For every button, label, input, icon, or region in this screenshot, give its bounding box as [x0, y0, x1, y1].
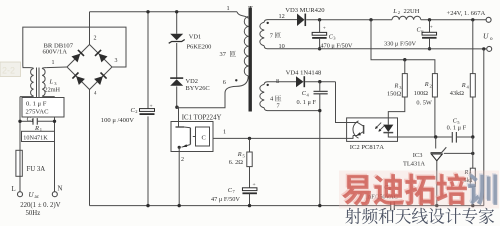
svg-text:150Ω: 150Ω — [387, 91, 401, 98]
svg-text:VD4 1N4148: VD4 1N4148 — [286, 69, 322, 76]
terminal 0V output — [487, 46, 492, 51]
terminal +24V output — [447, 10, 492, 22]
terminal L — [12, 186, 23, 197]
diode VD1 P6KE200 (TVS) — [169, 10, 212, 51]
diode VD2 BYV26C — [170, 43, 209, 107]
svg-text:22mH: 22mH — [45, 87, 61, 94]
svg-text:VD1: VD1 — [189, 33, 201, 40]
varistor R1 10N471K — [22, 125, 55, 142]
resistor R5 6.2ohm — [229, 138, 252, 166]
capacitor C7 47uF/50V — [211, 167, 257, 208]
svg-text:0. 5W: 0. 5W — [416, 100, 431, 107]
svg-text:+24V, 1. 667A: +24V, 1. 667A — [447, 10, 486, 17]
optocoupler IC2 PC817A — [347, 118, 398, 151]
svg-text:R: R — [394, 83, 399, 90]
svg-text:600V/1A: 600V/1A — [43, 49, 68, 56]
svg-text:0. 1 μ F: 0. 1 μ F — [297, 99, 317, 106]
svg-text:C: C — [202, 135, 206, 142]
capacitor C1 label box 0.1uF/275VAC — [22, 98, 64, 118]
wire L-line top loop (pin3 of bridge to choke) — [23, 27, 126, 68]
svg-text:50Hz: 50Hz — [26, 210, 41, 217]
svg-text:o: o — [490, 36, 493, 42]
label 220V 50Hz — [20, 202, 60, 217]
wire pin7 to ground lead — [268, 109, 322, 112]
svg-text:7: 7 — [277, 103, 280, 110]
svg-text:N: N — [58, 186, 63, 193]
watermark yiditui logo — [339, 171, 499, 209]
wire choke right to bridge pin1 — [46, 66, 67, 69]
transformer T primary winding 37 turns — [220, 5, 249, 86]
svg-text:1: 1 — [223, 129, 226, 136]
svg-text:330 μ F/50V: 330 μ F/50V — [384, 41, 417, 48]
svg-text:12: 12 — [279, 13, 285, 20]
wire bridge pin2 to DC+ rail — [89, 12, 91, 45]
capacitor C5 0.1uF — [447, 118, 467, 143]
svg-text:L: L — [392, 8, 397, 15]
svg-text:10N471K: 10N471K — [23, 134, 48, 141]
svg-text:+: + — [430, 25, 433, 31]
svg-text:R: R — [424, 81, 429, 88]
svg-text:37: 37 — [220, 51, 227, 58]
svg-text:IC2 PC817A: IC2 PC817A — [350, 144, 384, 151]
wire node-A branch down — [371, 20, 435, 74]
capacitor C8 1nF/250VAC (Y-cap in bottom rail) — [365, 184, 398, 210]
svg-text:22UH: 22UH — [404, 8, 420, 15]
label Uac — [29, 191, 40, 200]
svg-text:U: U — [483, 32, 489, 41]
wire bridge pin4 to primary ground — [89, 90, 91, 206]
svg-text:FU 3A: FU 3A — [27, 166, 46, 173]
resistor R6 5k1 — [464, 137, 476, 207]
svg-text:P6KE200: P6KE200 — [187, 44, 212, 51]
svg-text:2-2: 2-2 — [2, 66, 15, 76]
diode VD3 MUR420 — [285, 7, 325, 26]
wire L2 to +24V terminal — [421, 18, 486, 21]
inductor L2 22uH — [392, 8, 421, 20]
fuse FU 3A — [16, 150, 45, 176]
resistor R4 43kohm — [450, 20, 476, 137]
wire VD3 to L2 — [306, 18, 392, 21]
svg-text:5: 5 — [243, 153, 246, 158]
svg-text:4: 4 — [270, 96, 274, 103]
wire pin12 to VD3 — [268, 19, 298, 21]
shunt regulator IC3 TL431A — [403, 137, 474, 207]
figure tag 2-2 — [0, 62, 21, 77]
svg-text:100Ω: 100Ω — [414, 90, 428, 97]
svg-text:0. 1 μ F: 0. 1 μ F — [447, 125, 467, 132]
IC1 TOP224Y switching regulator — [171, 115, 226, 208]
svg-text:2: 2 — [430, 83, 432, 88]
svg-text:1: 1 — [31, 118, 33, 123]
wire pin8 to VD4 — [268, 81, 297, 83]
svg-text:+: + — [150, 103, 153, 109]
capacitor C2 100uF/400V — [101, 10, 155, 207]
svg-text:4: 4 — [467, 84, 470, 89]
terminal N — [52, 186, 62, 197]
wire primary/secondary bottom rail — [90, 205, 484, 207]
capacitor C1 — [18, 116, 56, 125]
resistor R3 150ohm — [387, 60, 407, 118]
svg-text:1: 1 — [52, 60, 55, 66]
svg-text:VD3 MUR420: VD3 MUR420 — [285, 7, 325, 14]
svg-text:IC3: IC3 — [413, 152, 423, 159]
svg-text:+: + — [323, 26, 326, 32]
diode VD4 1N4148 — [286, 69, 322, 87]
svg-text:BYV26C: BYV26C — [186, 85, 210, 92]
svg-text:VD2: VD2 — [186, 78, 198, 85]
capacitor C6 330uF/50V — [384, 20, 437, 51]
wire DC+ top rail — [90, 11, 238, 13]
svg-text:L: L — [49, 79, 54, 86]
wire N rail — [54, 97, 56, 192]
svg-text:4: 4 — [94, 92, 97, 97]
transformer bias winding 4 turns (pins 8-7) — [260, 78, 281, 111]
svg-text:2: 2 — [94, 36, 97, 42]
wire VD4 to opto collector — [305, 80, 347, 123]
wire return down to secondary ground — [483, 49, 485, 206]
svg-text:+: + — [253, 182, 256, 188]
svg-text:R: R — [461, 82, 466, 89]
resistor R2 100ohm 0.5W — [414, 74, 438, 137]
svg-text:IC1 TOP224Y: IC1 TOP224Y — [182, 115, 222, 122]
svg-text:R: R — [237, 151, 242, 158]
svg-text:43kΩ: 43kΩ — [450, 90, 464, 97]
svg-text:6. 2Ω: 6. 2Ω — [229, 159, 243, 166]
svg-text:1: 1 — [227, 5, 230, 12]
svg-text:47 μ F/50V: 47 μ F/50V — [211, 196, 240, 203]
svg-text:L: L — [12, 186, 16, 193]
wire control pin line — [213, 137, 347, 140]
label Uo — [483, 32, 493, 43]
svg-text:275VAC: 275VAC — [26, 109, 50, 116]
svg-text:2: 2 — [181, 157, 184, 163]
svg-text:ac: ac — [35, 195, 40, 200]
svg-text:100 μ /400V: 100 μ /400V — [101, 117, 134, 124]
svg-text:R: R — [34, 125, 39, 132]
watermark tagline — [345, 208, 494, 225]
wire L rail — [19, 97, 21, 192]
svg-text:2: 2 — [398, 10, 400, 15]
wire opto cathode to divider — [398, 135, 475, 138]
svg-text:0. 1 μ F: 0. 1 μ F — [26, 101, 47, 108]
node drain junction — [175, 106, 178, 109]
svg-text:TL431A: TL431A — [403, 160, 425, 167]
svg-text:4: 4 — [307, 92, 310, 97]
capacitor C4 0.1uF — [297, 82, 328, 208]
svg-text:3: 3 — [115, 58, 118, 64]
svg-text:3: 3 — [333, 36, 336, 41]
transformer secondary winding 7 turns (pins 12-10) — [260, 13, 285, 50]
svg-text:220(1 ± 0. 2)V: 220(1 ± 0. 2)V — [20, 202, 60, 209]
svg-text:7: 7 — [270, 32, 274, 39]
inductor L3 (common-mode choke) — [20, 68, 61, 99]
wire secondary return rail — [268, 47, 487, 50]
svg-text:6: 6 — [223, 79, 226, 86]
svg-text:7: 7 — [233, 189, 236, 194]
wire drain to TOP224 — [177, 107, 179, 121]
svg-text:2: 2 — [135, 109, 137, 114]
capacitor C3 470uF/50V — [312, 20, 353, 51]
svg-text:3: 3 — [54, 81, 57, 86]
bridge rectifier BR DB107 — [43, 36, 118, 97]
svg-text:3: 3 — [399, 85, 402, 90]
svg-text:T: T — [248, 5, 253, 13]
wire transformer pin6 to drain node — [177, 76, 248, 108]
transformer core — [248, 5, 253, 112]
